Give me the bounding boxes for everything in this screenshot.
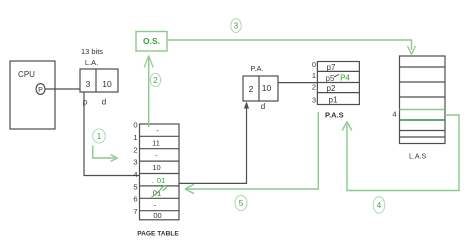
- svg-text:P: P: [38, 87, 43, 94]
- svg-text:PAGE TABLE: PAGE TABLE: [137, 231, 179, 238]
- svg-text:P4: P4: [340, 74, 350, 83]
- svg-text:3: 3: [312, 96, 316, 105]
- svg-text:.: .: [151, 176, 153, 185]
- svg-text:d: d: [102, 98, 106, 107]
- svg-text:CPU: CPU: [18, 70, 35, 79]
- svg-text:p1: p1: [329, 95, 338, 104]
- svg-text:10: 10: [102, 79, 112, 89]
- svg-text:2: 2: [153, 76, 158, 85]
- svg-text:4: 4: [377, 201, 382, 210]
- svg-text:3: 3: [86, 79, 91, 89]
- svg-text:P.A.: P.A.: [250, 64, 263, 73]
- svg-text:2: 2: [249, 84, 254, 94]
- svg-text:O.S.: O.S.: [143, 36, 160, 46]
- svg-text:P.A.S: P.A.S: [325, 111, 344, 120]
- svg-text:6: 6: [133, 195, 137, 204]
- svg-text:7: 7: [133, 207, 137, 216]
- svg-text:5: 5: [133, 182, 137, 191]
- svg-text:p5: p5: [326, 74, 335, 83]
- svg-text:00: 00: [153, 211, 161, 220]
- svg-text:-: -: [155, 151, 158, 160]
- svg-text:3: 3: [133, 158, 137, 167]
- svg-text:d: d: [261, 102, 265, 111]
- svg-text:10: 10: [262, 83, 272, 93]
- svg-text:1: 1: [97, 132, 102, 141]
- svg-text:0: 0: [312, 60, 316, 69]
- svg-text:11: 11: [152, 139, 160, 148]
- svg-text:1: 1: [133, 133, 137, 142]
- svg-text:4: 4: [133, 170, 137, 179]
- svg-text:-: -: [156, 126, 159, 135]
- svg-text:p2: p2: [327, 84, 336, 93]
- svg-text:4: 4: [392, 110, 396, 119]
- svg-text:p7: p7: [327, 63, 336, 72]
- svg-text:1: 1: [312, 71, 316, 80]
- svg-text:5: 5: [239, 199, 244, 208]
- svg-text:2: 2: [133, 145, 137, 154]
- svg-text:13 bits: 13 bits: [81, 47, 103, 56]
- svg-text:p: p: [83, 98, 88, 107]
- svg-text:01: 01: [157, 176, 165, 185]
- svg-text:3: 3: [234, 22, 239, 31]
- svg-text:10: 10: [152, 163, 160, 172]
- svg-text:L.A.S: L.A.S: [409, 154, 426, 161]
- svg-text:2: 2: [312, 83, 316, 92]
- svg-text:L.A.: L.A.: [85, 58, 98, 67]
- svg-text:-: -: [154, 201, 157, 210]
- svg-text:0: 0: [133, 121, 137, 130]
